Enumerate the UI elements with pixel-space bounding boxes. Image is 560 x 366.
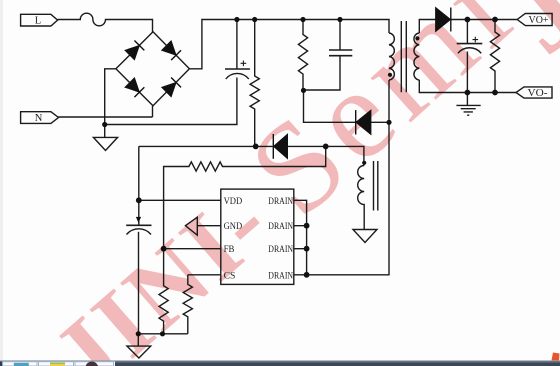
svg-text:FB: FB [224, 245, 235, 255]
svg-text:GND: GND [224, 222, 243, 232]
svg-text:VO-: VO- [528, 88, 549, 99]
svg-text:L: L [35, 16, 41, 27]
svg-text:DRAIN: DRAIN [268, 197, 293, 207]
svg-text:N: N [35, 113, 43, 124]
svg-text:VO+: VO+ [529, 15, 549, 26]
svg-text:DRAIN: DRAIN [268, 245, 293, 255]
svg-text:DRAIN: DRAIN [268, 271, 293, 281]
svg-text:VDD: VDD [224, 197, 243, 207]
svg-text:CS: CS [224, 271, 236, 281]
svg-text:DRAIN: DRAIN [268, 222, 293, 232]
